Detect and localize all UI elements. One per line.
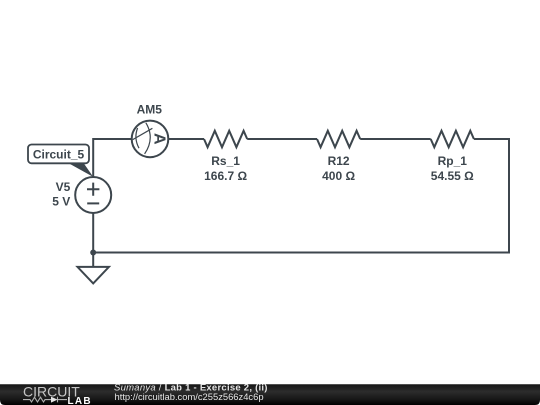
svg-text:A: A (150, 133, 167, 145)
ammeter AM5 (132, 121, 169, 158)
wire (247, 138, 317, 140)
svg-text:R12: R12 (328, 154, 350, 168)
wire (92, 253, 94, 268)
svg-text:V5: V5 (56, 180, 71, 194)
logo resistor-diode line (23, 397, 67, 403)
resistor Rs_1 (204, 131, 247, 147)
svg-text:Rp_1: Rp_1 (438, 154, 468, 168)
wire (93, 139, 132, 177)
wire (93, 139, 509, 253)
svg-text:LAB: LAB (68, 396, 92, 405)
wire (92, 213, 94, 252)
resistor Rp_1 (431, 131, 474, 147)
svg-text:5 V: 5 V (52, 195, 70, 209)
wire (360, 138, 431, 140)
footer bar (0, 384, 540, 405)
ground (78, 267, 109, 284)
voltage source V5 (75, 177, 111, 213)
svg-text:400 Ω: 400 Ω (322, 169, 355, 183)
svg-text:http://circuitlab.com/c255z566: http://circuitlab.com/c255z566z4c6p (115, 391, 264, 402)
wire (168, 138, 204, 140)
logo diode triangle (51, 397, 58, 403)
svg-text:54.55 Ω: 54.55 Ω (431, 169, 474, 183)
svg-text:166.7 Ω: 166.7 Ω (204, 169, 247, 183)
resistor R12 (317, 131, 360, 147)
node callout Circuit_5 (28, 145, 93, 177)
svg-text:AM5: AM5 (137, 103, 163, 117)
svg-text:Circuit_5: Circuit_5 (33, 148, 85, 162)
junction dot (90, 250, 96, 256)
svg-text:Rs_1: Rs_1 (211, 154, 240, 168)
